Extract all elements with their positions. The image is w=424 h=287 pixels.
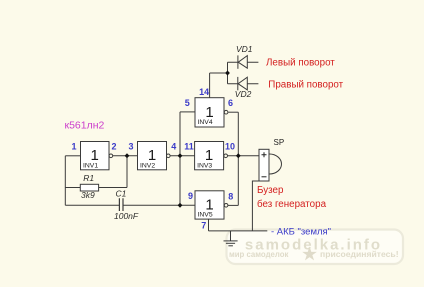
svg-text:8: 8 bbox=[228, 192, 233, 202]
wire: INV3 output to speaker plus bbox=[228, 155, 260, 157]
svg-text:R1: R1 bbox=[83, 173, 94, 183]
junction dot: INV2 output node bbox=[178, 153, 183, 158]
wire: VD2 leads bbox=[228, 83, 259, 85]
wire: bottom rail left of C1 bbox=[65, 204, 119, 206]
inverter INV5 bbox=[195, 191, 228, 219]
svg-text:присоединяйтесь!: присоединяйтесь! bbox=[320, 249, 399, 259]
wire: INV5 output bbox=[228, 204, 239, 206]
svg-text:11: 11 bbox=[184, 142, 194, 152]
svg-text:- АКБ "земля": - АКБ "земля" bbox=[271, 227, 331, 238]
svg-text:2: 2 bbox=[112, 142, 117, 152]
svg-text:Бузер: Бузер bbox=[257, 185, 284, 196]
diode VD1 bbox=[236, 44, 253, 69]
svg-text:Правый поворот: Правый поворот bbox=[268, 79, 343, 90]
svg-text:4: 4 bbox=[171, 142, 176, 152]
junction dot: LED node bbox=[225, 71, 230, 76]
svg-text:без генератора: без генератора bbox=[257, 199, 327, 210]
wire: paralleled outputs vertical x=238.3 bbox=[237, 112, 239, 205]
svg-text:10: 10 bbox=[225, 142, 235, 152]
svg-text:INV2: INV2 bbox=[140, 162, 155, 169]
svg-text:мир самоделок: мир самоделок bbox=[229, 250, 288, 259]
ground bbox=[224, 231, 238, 246]
inverter INV2 bbox=[138, 142, 171, 170]
buzzer SP bbox=[259, 138, 284, 181]
svg-text:к561лн2: к561лн2 bbox=[65, 120, 105, 132]
wire: pin 14 vertical from INV4 top bbox=[209, 73, 211, 98]
wire: pin 7 vertical from INV5 bottom bbox=[208, 219, 210, 231]
capacitor C1 bbox=[114, 189, 139, 221]
wire: INV4 output bbox=[228, 111, 238, 113]
svg-text:Левый поворот: Левый поворот bbox=[266, 57, 335, 68]
wire: INV2 output to INV3 input bbox=[170, 155, 194, 157]
svg-text:INV1: INV1 bbox=[83, 162, 98, 169]
svg-text:5: 5 bbox=[185, 98, 190, 108]
svg-text:INV5: INV5 bbox=[198, 212, 213, 219]
wire: left vertical (INV1 input node) bbox=[64, 156, 66, 206]
inverter INV1 bbox=[81, 142, 113, 170]
wire: speaker minus lead bbox=[252, 181, 259, 231]
resistor R1 bbox=[80, 173, 98, 200]
svg-text:C1: C1 bbox=[116, 189, 127, 199]
svg-text:SP: SP bbox=[274, 138, 285, 147]
wire: R1 right lead bbox=[99, 187, 127, 189]
wire: ground rail bbox=[209, 230, 268, 232]
wire: pin 14 horizontal to LED node bbox=[210, 72, 228, 74]
svg-text:1: 1 bbox=[71, 142, 76, 152]
svg-text:VD2: VD2 bbox=[235, 89, 252, 99]
svg-text:6: 6 bbox=[228, 98, 233, 108]
svg-text:INV4: INV4 bbox=[198, 119, 213, 126]
watermark samodelka.info bbox=[227, 230, 404, 265]
svg-text:★: ★ bbox=[302, 246, 318, 264]
wire: LED branch vertical bbox=[227, 62, 229, 83]
wire: R1 left lead bbox=[65, 187, 80, 189]
svg-text:9: 9 bbox=[188, 191, 193, 201]
svg-text:14: 14 bbox=[199, 87, 209, 97]
diode VD2 bbox=[235, 77, 252, 99]
svg-text:7: 7 bbox=[201, 220, 206, 230]
wire: R1 right vertical up to INV1 output bbox=[126, 156, 128, 188]
wire: INV1 output to INV2 input bbox=[113, 155, 138, 157]
junction dot: INV1 output node bbox=[125, 153, 130, 158]
wire: VD1 leads bbox=[228, 61, 259, 63]
wire: bottom rail right of C1 to INV5 input bbox=[123, 204, 195, 206]
wire: INV4 input horizontal bbox=[180, 111, 195, 113]
svg-text:VD1: VD1 bbox=[236, 44, 253, 54]
junction dot: INV3 output node bbox=[236, 153, 241, 158]
wire: INV1 input horizontal bbox=[65, 155, 80, 157]
inverter INV3 bbox=[195, 142, 228, 170]
svg-text:INV3: INV3 bbox=[197, 162, 212, 169]
svg-text:3k9: 3k9 bbox=[81, 190, 95, 200]
svg-text:3: 3 bbox=[128, 142, 133, 152]
svg-text:100nF: 100nF bbox=[114, 211, 139, 221]
wire: feedback vertical x=180 bbox=[179, 112, 181, 205]
inverter INV4 bbox=[195, 98, 228, 127]
junction dot: bottom rail / feedback bbox=[178, 203, 183, 208]
